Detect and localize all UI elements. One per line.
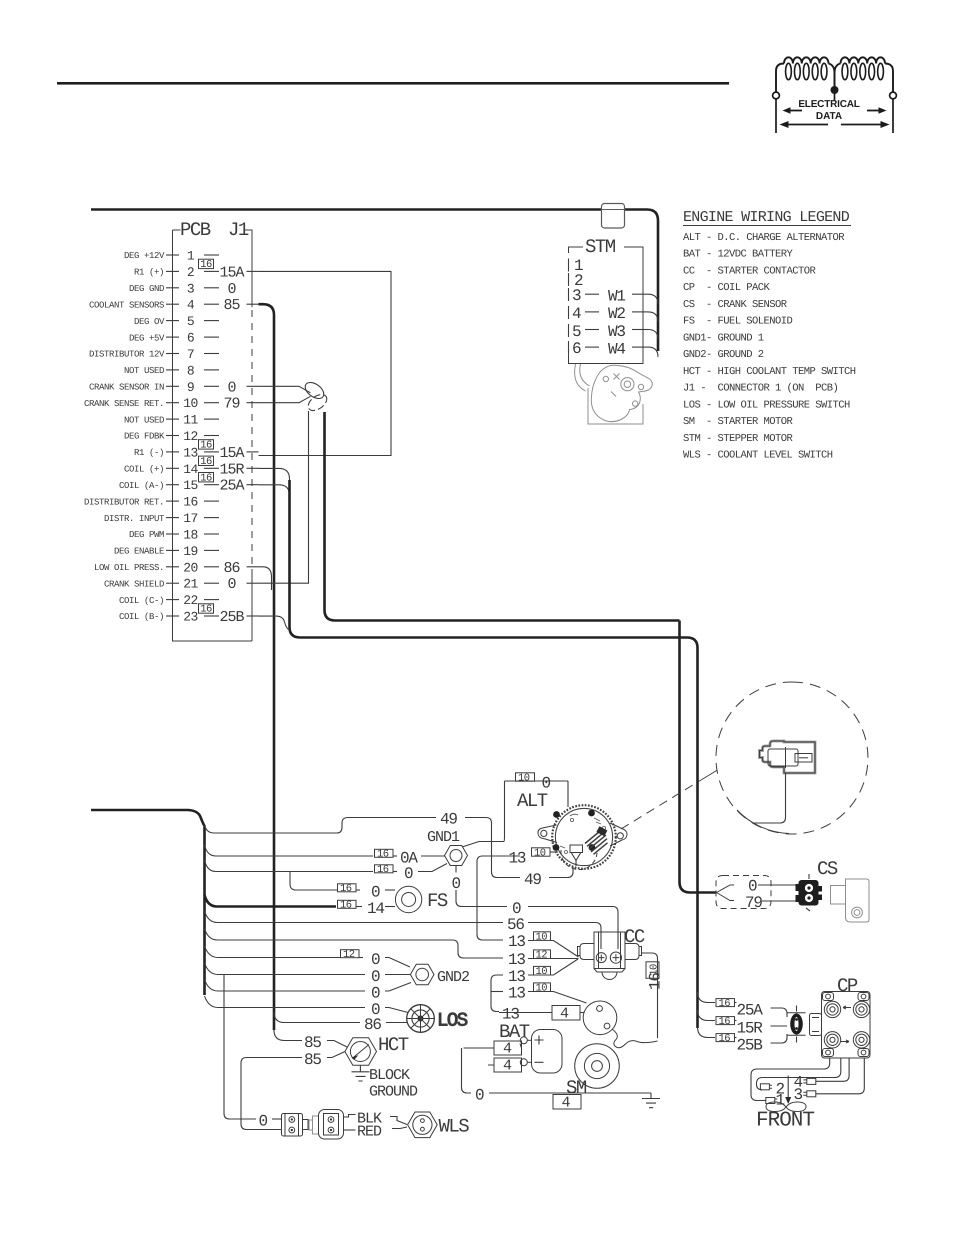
J1 pin 2 fuse box 16: [199, 259, 214, 268]
STM body: [569, 247, 644, 364]
CP wire 2: [757, 1058, 841, 1090]
svg-text:DEG OV: DEG OV: [134, 317, 165, 327]
harness branch 0 GND2 row1: [205, 946, 341, 958]
wire 49 riser to ALT: [549, 851, 573, 878]
svg-text:GND2- GROUND 2: GND2- GROUND 2: [683, 349, 764, 361]
svg-text:86: 86: [223, 560, 240, 577]
GND2 hex: [410, 964, 434, 984]
J1 body right border bottom: [251, 569, 253, 641]
svg-text:0: 0: [404, 865, 413, 883]
J1 pin 20 tick: [166, 566, 179, 568]
fuse box 12 row2: [534, 950, 551, 959]
CP tower 3: [824, 1032, 840, 1048]
wire 15R to CP connector: [771, 1025, 788, 1027]
svg-text:CRANK SENSE RET.: CRANK SENSE RET.: [84, 399, 164, 409]
ALT regulator block: [596, 826, 607, 836]
svg-text:12: 12: [183, 429, 198, 444]
J1 pin 20 stub: [204, 566, 219, 568]
svg-text:DISTRIBUTOR 12V: DISTRIBUTOR 12V: [89, 350, 165, 360]
wire crank sensor pair down from twist: [325, 412, 680, 621]
cable box 4 on ground wire: [553, 1095, 581, 1110]
J1 pin 18 tick: [166, 533, 179, 535]
fuse box 12 GND2 row1: [341, 950, 360, 958]
J1 pin 16 stub: [204, 500, 219, 502]
svg-text:16: 16: [200, 440, 212, 452]
motor x mark: [611, 374, 620, 397]
starter motor SM: [566, 1001, 658, 1099]
motor cable from STM: [575, 364, 590, 391]
svg-text:CRANK SHIELD: CRANK SHIELD: [104, 579, 164, 589]
HCT inner circle: [350, 1042, 370, 1062]
svg-text:15A: 15A: [219, 445, 244, 462]
J1 pin 15 wire tick: [247, 484, 259, 486]
ALT right ear: [610, 823, 627, 846]
ALT body face: [555, 808, 612, 865]
svg-text:DEG +5V: DEG +5V: [129, 333, 165, 343]
svg-text:CC: CC: [624, 926, 645, 948]
J1 pin 18 stub: [204, 533, 219, 535]
svg-text:16: 16: [200, 259, 212, 271]
emblem arrows: [780, 107, 890, 128]
connector key rib: [785, 747, 787, 768]
balloon connector wire: [753, 773, 786, 823]
wire 13 row4 bracket stub: [491, 991, 503, 993]
svg-text:GND1- GROUND 1: GND1- GROUND 1: [683, 332, 764, 344]
connector WLS plug B: [309, 1110, 344, 1140]
J1 pin 12 stub: [204, 435, 219, 437]
GND2 hole: [416, 968, 429, 981]
svg-text:CRANK SENSOR IN: CRANK SENSOR IN: [89, 383, 164, 393]
GND1 tail 0 down: [455, 866, 457, 873]
svg-text:CP: CP: [837, 975, 858, 997]
W1 junction hop: [648, 294, 658, 304]
svg-text:WLS: WLS: [439, 1116, 470, 1138]
svg-text:NOT USED: NOT USED: [124, 415, 164, 425]
BAT negative cable box 4: [494, 1058, 522, 1072]
harness branch 0 to FS: [290, 872, 337, 891]
J1 pin 11 tick: [166, 418, 179, 420]
svg-text:WLS - COOLANT LEVEL SWITCH: WLS - COOLANT LEVEL SWITCH: [683, 450, 833, 462]
wire 0 to WLS connector: [272, 1118, 281, 1120]
wire 15A loop pin2 to pin13 (R1): [259, 271, 392, 455]
emblem center tap: [831, 86, 839, 94]
svg-text:22: 22: [183, 593, 198, 608]
detail balloon solid arc: [737, 810, 789, 834]
CP lug 2: [760, 1084, 772, 1090]
svg-text:PCB: PCB: [180, 219, 211, 241]
ALT lower stud: [572, 853, 581, 866]
svg-text:W2: W2: [608, 305, 625, 323]
svg-text:8: 8: [187, 363, 194, 378]
ALT bolts: [553, 811, 560, 818]
svg-text:17: 17: [183, 511, 198, 526]
J1 pin 21 wire tick: [247, 582, 259, 584]
J1 pin 14 stub: [204, 467, 219, 469]
svg-text:0: 0: [259, 1113, 268, 1131]
STM pin 5 wire W3: [568, 324, 570, 337]
J1 pin 8 stub: [204, 369, 219, 371]
svg-text:21: 21: [183, 577, 198, 592]
svg-text:FS - FUEL SOLENOID: FS - FUEL SOLENOID: [683, 316, 793, 328]
emblem right terminal: [890, 92, 897, 99]
svg-text:0: 0: [542, 775, 551, 793]
svg-text:DISTR. INPUT: DISTR. INPUT: [104, 514, 165, 524]
svg-text:16: 16: [647, 973, 665, 990]
J1 pin 22 tick: [166, 599, 179, 601]
svg-text:DEG +12V: DEG +12V: [124, 251, 165, 261]
svg-text:4: 4: [572, 305, 581, 323]
svg-text:56: 56: [507, 916, 524, 934]
SM motor body: [575, 1044, 620, 1089]
CS sensor bolt hole: [852, 907, 863, 918]
J1 pin 22 stub: [204, 599, 219, 601]
svg-text:DEG ENABLE: DEG ENABLE: [114, 547, 164, 557]
CP lug 4: [803, 1078, 816, 1084]
fuse box 16 on 15R: [716, 1017, 735, 1025]
svg-text:W1: W1: [608, 288, 625, 306]
wire 86 branch from 85 bundle to LOS: [274, 1012, 360, 1023]
STM pin 4 wire W2: [568, 306, 570, 319]
svg-text:R1 (-): R1 (-): [134, 448, 164, 458]
svg-text:16: 16: [719, 998, 731, 1010]
connector tab on bus: [602, 204, 625, 229]
CP front arrow: [787, 1076, 789, 1099]
svg-text:4: 4: [503, 1041, 512, 1058]
GND1 0 wire to CC: [456, 890, 507, 907]
svg-text:ALT: ALT: [517, 790, 548, 812]
fuse box 16 on 14: [338, 900, 357, 908]
svg-text:DATA: DATA: [816, 111, 842, 122]
battery BAT: [464, 1021, 563, 1075]
svg-text:GROUND: GROUND: [369, 1084, 418, 1101]
svg-text:ALT - D.C. CHARGE ALTERNATOR: ALT - D.C. CHARGE ALTERNATOR: [683, 232, 845, 244]
CP lug 3: [803, 1091, 816, 1097]
J1 pin 13 wire tick: [247, 451, 259, 453]
svg-text:13: 13: [508, 951, 525, 969]
svg-text:LOS: LOS: [437, 1010, 468, 1032]
STM pin 6 wire W4: [568, 341, 570, 352]
CP tower 2: [853, 1001, 869, 1017]
fuse box 10 row3: [534, 966, 551, 975]
wire 56 to CC: [528, 923, 601, 950]
svg-text:CC - STARTER CONTACTOR: CC - STARTER CONTACTOR: [683, 266, 817, 278]
stepper motor drawing: [575, 364, 653, 424]
svg-text:15A: 15A: [219, 264, 244, 281]
wire 25B from pin23 joining coil bundle: [259, 616, 290, 630]
J1 pin 1 stub: [204, 254, 219, 256]
J1 pin 3 tick: [166, 287, 179, 289]
detail leader dashed to balloon: [621, 780, 701, 829]
J1 pin 6 tick: [166, 336, 179, 338]
bus wire top (battery feed): [91, 210, 658, 352]
J1 pin 2 tick: [166, 270, 179, 272]
detail balloon dashed circle: [716, 682, 868, 834]
svg-text:FRONT: FRONT: [756, 1110, 814, 1133]
svg-text:85: 85: [304, 1051, 321, 1069]
svg-text:18: 18: [183, 528, 198, 543]
svg-text:5: 5: [572, 323, 581, 341]
fuse box 10 row1: [534, 932, 551, 941]
J1 pin 19 tick: [166, 549, 179, 551]
emblem left coil: [776, 57, 835, 97]
J1 pin 21 tick: [166, 582, 179, 584]
svg-text:HCT - HIGH COOLANT TEMP SWITCH: HCT - HIGH COOLANT TEMP SWITCH: [683, 366, 856, 378]
W2 junction hop: [648, 312, 658, 322]
svg-text:NOT USED: NOT USED: [124, 366, 164, 376]
wire 85 leader to HCT: [327, 1041, 347, 1048]
wire 13 ALT with fuse box: [532, 848, 551, 856]
svg-text:RED: RED: [357, 1124, 382, 1141]
svg-text:0: 0: [371, 985, 380, 1003]
svg-text:COIL (A-): COIL (A-): [119, 481, 164, 491]
J1 pin 23 stub: [204, 615, 219, 617]
harness branch 56: [205, 911, 504, 923]
connector WLS plug A: [282, 1114, 309, 1137]
svg-text:11: 11: [183, 413, 198, 428]
svg-text:10: 10: [518, 772, 530, 784]
svg-text:13: 13: [509, 850, 526, 868]
ALT small text marks: [560, 814, 606, 853]
svg-text:0: 0: [227, 281, 236, 298]
svg-text:5: 5: [187, 314, 194, 329]
svg-text:HCT: HCT: [378, 1034, 409, 1056]
svg-text:CS - CRANK SENSOR: CS - CRANK SENSOR: [683, 299, 788, 311]
svg-text:J1 - CONNECTOR 1 (ON PCB): J1 - CONNECTOR 1 (ON PCB): [683, 383, 838, 395]
J1 pin 4 stub: [204, 303, 219, 305]
J1 pin 7 tick: [166, 353, 179, 355]
svg-text:86: 86: [364, 1016, 381, 1034]
wire 15R from pin14 into coil bundle: [259, 468, 290, 500]
BAT body: [532, 1030, 563, 1074]
J1 body left border: [173, 230, 253, 641]
J1 pin 20 wire tick: [247, 566, 259, 568]
starter contactor CC: [578, 926, 645, 980]
CC stud right: [610, 952, 621, 963]
J1 pin 16 tick: [166, 500, 179, 502]
svg-text:12: 12: [343, 949, 355, 961]
wire 85 HCT to WLS link: [327, 1052, 345, 1058]
J1 pin 13 tick: [166, 451, 179, 453]
svg-text:1: 1: [187, 249, 195, 264]
SM solenoid: [583, 1001, 617, 1035]
svg-text:STM - STEPPER MOTOR: STM - STEPPER MOTOR: [683, 433, 794, 445]
propeller symbol: [766, 1102, 806, 1112]
block ground symbol: [352, 1066, 370, 1082]
J1 body right border dashed: [251, 310, 253, 566]
coolant level switch WLS: [408, 1112, 470, 1138]
harness branch 49: [205, 818, 437, 834]
motor boss: [621, 378, 634, 391]
ALT vent slots: [585, 830, 608, 855]
J1 pin 14 tick: [166, 467, 179, 469]
harness branch 13: [205, 929, 453, 941]
svg-text:2: 2: [187, 265, 194, 280]
wire 13 row5: [499, 1012, 552, 1014]
CC stud left: [596, 953, 606, 963]
harness branch 13 row2 jog: [218, 940, 504, 958]
CP receptacle: [810, 1014, 822, 1036]
cable box 4 row5: [552, 1006, 580, 1021]
GND1 hex: [445, 846, 468, 866]
wire 13 row2 to CC: [528, 958, 579, 960]
wire crank shield 0 from twist down to pin21: [259, 411, 309, 583]
wire BLK to WLS: [390, 1117, 407, 1125]
wire 13 row4 diagonal to SM solenoid: [528, 992, 587, 1004]
BAT positive terminal: [520, 1037, 527, 1044]
svg-text:0: 0: [371, 968, 380, 986]
svg-text:4: 4: [503, 1058, 512, 1075]
wire 25A to CP connector: [771, 1008, 788, 1017]
wire 25B branch from coil bundle: [698, 1027, 716, 1038]
wire 25B to CP connector: [771, 1034, 788, 1043]
svg-text:16: 16: [200, 472, 212, 484]
svg-text:16: 16: [183, 495, 198, 510]
J1 pin 4 tick: [166, 303, 179, 305]
connector inner cavity: [768, 749, 798, 766]
CP ear top-left: [823, 993, 834, 1001]
svg-text:25B: 25B: [737, 1037, 763, 1055]
wire 0 row4 to LOS: [385, 1008, 408, 1013]
svg-text:CS: CS: [817, 858, 838, 880]
svg-text:ELECTRICAL: ELECTRICAL: [798, 99, 859, 110]
J1 pin 10 tick: [166, 402, 179, 404]
svg-text:19: 19: [183, 544, 198, 559]
svg-text:DEG PWM: DEG PWM: [129, 530, 164, 540]
svg-text:3: 3: [572, 287, 581, 305]
detail leader solid: [701, 770, 718, 780]
GND1 hole: [450, 850, 462, 862]
fuse box 16 on 25A: [716, 999, 735, 1007]
svg-text:0: 0: [227, 576, 236, 593]
CP ear bottom-right: [858, 1049, 869, 1057]
wire crank sensor pair right vertical to CS: [680, 621, 717, 893]
wire 13 row5 to SM stud: [580, 1012, 584, 1014]
J1 pin 5 tick: [166, 320, 179, 322]
CP wire 3: [816, 1058, 864, 1094]
connector STM bracket: [569, 236, 659, 364]
svg-text:W4: W4: [608, 340, 625, 358]
motor mounting plate: [588, 388, 643, 424]
J1 pin 14 fuse box 16: [199, 456, 214, 465]
fuse box 10 row4: [534, 983, 551, 992]
ALT left ear: [538, 825, 557, 843]
svg-text:13: 13: [508, 933, 525, 951]
wire 16 from CC to SM solenoid: [642, 953, 658, 1038]
CP ear top-right: [858, 993, 869, 1001]
harness branch 0 to GND1: [205, 860, 374, 872]
coolant temp switch HCT: [345, 1034, 409, 1065]
svg-text:10: 10: [534, 847, 546, 859]
W3 junction hop: [648, 330, 658, 340]
CC base seat: [594, 969, 625, 973]
harness branch 0A: [205, 845, 374, 856]
CP wire 1: [751, 1058, 830, 1101]
ground stud GND2: [410, 964, 469, 986]
svg-text:9: 9: [187, 380, 194, 395]
CS plug (black connector): [796, 874, 823, 911]
svg-text:15R: 15R: [219, 461, 244, 478]
wire 13 row3 bracket: [491, 975, 503, 1012]
wire 86 from pin20 joining 85 bundle: [259, 567, 272, 590]
J1 body right border top bracket: [245, 230, 252, 307]
svg-text:W3: W3: [608, 323, 625, 341]
wire coil bundle corner down to CP: [687, 638, 698, 1029]
emblem right coil: [835, 57, 894, 97]
ground symbol at SM: [642, 1093, 660, 1108]
connector J1 (PCB): [84, 219, 259, 641]
svg-text:49: 49: [524, 871, 541, 889]
harness branch 0 GND2 row3: [205, 980, 366, 992]
bus wire lower harness: [91, 810, 205, 995]
motor bolt holes: [603, 376, 608, 381]
J1 pin 23 fuse box 16: [199, 604, 214, 613]
J1 pin 11 stub: [204, 418, 219, 420]
wire 13 row3 diagonal to CC: [528, 959, 578, 975]
J1 pin 23 tick: [166, 615, 179, 617]
CP wire 4: [816, 1058, 849, 1081]
svg-text:GND1: GND1: [427, 829, 460, 846]
svg-text:79: 79: [223, 396, 239, 413]
harness branch 0 LOS row4: [205, 996, 366, 1008]
svg-text:12: 12: [536, 950, 548, 962]
J1 pin 2 stub: [204, 270, 219, 272]
connector outer shell: [760, 741, 816, 773]
J1 pin 13 stub: [204, 451, 219, 453]
svg-text:SM - STARTER MOTOR: SM - STARTER MOTOR: [683, 416, 794, 428]
wire RED to WLS: [392, 1127, 407, 1129]
svg-text:25A: 25A: [219, 478, 244, 495]
fuse box 10 rotated on 16 wire: [646, 962, 659, 979]
svg-text:20: 20: [183, 560, 198, 575]
CP tower 1: [824, 1001, 840, 1017]
wire pin9 0 to twisted pair: [259, 386, 311, 393]
svg-text:7: 7: [187, 347, 194, 362]
harness branch 0 GND2 row2: [205, 963, 366, 975]
svg-text:13: 13: [508, 985, 525, 1003]
STM pin 2: [568, 273, 570, 286]
wire coil bundle vertical: [290, 480, 688, 638]
svg-text:SM: SM: [566, 1077, 587, 1099]
J1 pin 17 tick: [166, 517, 179, 519]
svg-text:3: 3: [794, 1086, 803, 1104]
J1 pin 10 wire tick: [247, 402, 259, 404]
svg-text:0: 0: [227, 379, 236, 396]
svg-text:14: 14: [183, 462, 198, 477]
svg-text:15R: 15R: [737, 1020, 764, 1038]
wire 85 link down to WLS: [241, 1058, 302, 1130]
svg-text:10: 10: [536, 966, 548, 978]
svg-text:COIL (C-): COIL (C-): [119, 596, 164, 606]
wire 13 stub: [550, 851, 558, 853]
J1 pin 21 stub: [204, 582, 219, 584]
J1 pin 23 wire tick: [247, 615, 259, 617]
J1 pin 17 stub: [204, 517, 219, 519]
CP lug 1: [766, 1098, 778, 1104]
wire RED: [344, 1129, 356, 1131]
CC right flange: [625, 944, 642, 960]
wire 0 to CC coil terminal: [528, 907, 618, 950]
CS wire 0 to plug: [758, 884, 798, 886]
svg-text:1: 1: [776, 1092, 785, 1110]
svg-text:85: 85: [223, 297, 240, 314]
wire 0 diagonal to GND1: [418, 864, 447, 872]
svg-text:13: 13: [508, 968, 525, 986]
svg-text:R1 (+): R1 (+): [134, 268, 164, 278]
J1 pin 9 stub: [204, 385, 219, 387]
svg-text:0: 0: [748, 878, 757, 896]
CP harness connector: [788, 1006, 806, 1043]
svg-text:16: 16: [200, 456, 212, 468]
